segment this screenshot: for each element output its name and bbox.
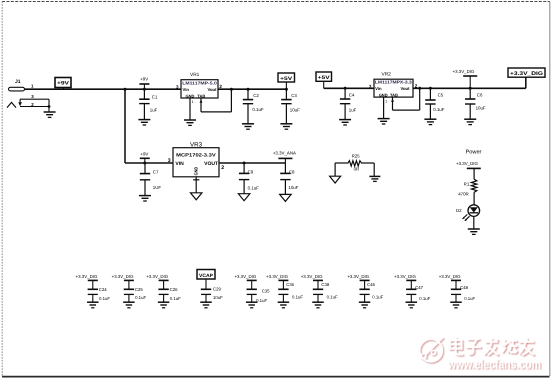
svg-text:1uF: 1uF [150,108,158,113]
svg-text:0.1uF: 0.1uF [170,296,181,301]
svg-text:+3.3V_DIG: +3.3V_DIG [439,274,461,279]
svg-text:C25: C25 [135,287,143,292]
svg-text:D2: D2 [456,208,462,213]
svg-text:VR2: VR2 [382,71,392,77]
svg-text:C9: C9 [248,169,254,174]
svg-text:VR3: VR3 [190,141,203,148]
svg-text:+3.3V_DIG: +3.3V_DIG [301,274,323,279]
svg-text:0.1uF: 0.1uF [292,295,303,300]
svg-text:C26: C26 [170,287,178,292]
svg-text:MCP1702-3.3V: MCP1702-3.3V [176,152,217,157]
svg-text:Vout: Vout [401,86,411,91]
svg-text:C5: C5 [438,92,444,97]
svg-text:2: 2 [219,84,222,89]
svg-text:+3.3V_DIG: +3.3V_DIG [453,69,475,74]
svg-text:C38: C38 [321,282,329,287]
svg-text:Power: Power [466,149,482,155]
svg-text:3: 3 [369,84,372,89]
svg-text:C36: C36 [286,282,294,287]
svg-text:0.1uF: 0.1uF [248,185,260,190]
svg-text:+3.3V_DIG: +3.3V_DIG [76,274,98,279]
svg-text:TAB: TAB [390,92,398,97]
svg-text:+3.3V_ANA: +3.3V_ANA [273,151,296,156]
svg-text:1: 1 [192,100,194,104]
svg-text:10uF: 10uF [288,185,298,190]
svg-text:+3.3V_DIG: +3.3V_DIG [234,274,256,279]
svg-text:C3: C3 [291,93,297,98]
svg-text:470R: 470R [458,191,469,196]
svg-text:GND: GND [186,94,195,99]
svg-text:+9V: +9V [57,81,70,87]
svg-text:J1: J1 [15,79,21,85]
svg-text:Vin: Vin [183,87,190,92]
svg-text:0.1uF: 0.1uF [419,296,430,301]
svg-text:C7: C7 [153,169,159,174]
svg-text:+3.3V_DIG: +3.3V_DIG [456,161,478,166]
svg-text:+3.3V_DIG: +3.3V_DIG [510,71,543,77]
svg-text:LM1117MP-5.0: LM1117MP-5.0 [182,80,217,85]
svg-text:GND: GND [194,167,199,176]
svg-text:C48: C48 [460,285,468,290]
svg-text:C47: C47 [415,285,423,290]
svg-text:3: 3 [176,84,179,89]
svg-text:C4: C4 [349,93,355,98]
svg-text:10uF: 10uF [213,295,223,300]
svg-text:0.1uF: 0.1uF [99,296,110,301]
svg-text:C35: C35 [262,288,270,293]
svg-text:GND: GND [379,92,388,97]
svg-text:+9V: +9V [140,77,148,82]
svg-text:VIN: VIN [175,161,184,167]
svg-text:C1: C1 [152,95,158,100]
svg-text:0.1uF: 0.1uF [252,107,264,112]
svg-text:2: 2 [221,165,224,171]
svg-text:0.1uF: 0.1uF [327,295,338,300]
svg-text:+3.3V_DIG: +3.3V_DIG [394,274,416,279]
svg-text:+3.3V_DIG: +3.3V_DIG [146,274,168,279]
svg-text:+5V: +5V [318,75,331,81]
svg-text:10uF: 10uF [290,108,300,113]
svg-text:C46: C46 [367,282,375,287]
svg-text:R25: R25 [352,153,361,158]
svg-text:0.1uF: 0.1uF [433,107,445,112]
svg-text:0R: 0R [354,166,360,171]
svg-text:+9V: +9V [140,152,148,157]
svg-text:+5V: +5V [280,76,293,82]
svg-text:3: 3 [168,158,171,164]
svg-text:Vin: Vin [375,86,382,91]
svg-text:C6: C6 [477,92,483,97]
svg-text:C24: C24 [99,287,107,292]
svg-text:C29: C29 [213,286,221,291]
svg-text:0.1uF: 0.1uF [464,296,475,301]
svg-text:1uF: 1uF [349,107,357,112]
svg-text:10uF: 10uF [476,105,486,110]
svg-text:1UF: 1UF [153,185,162,190]
svg-text:0.1uF: 0.1uF [256,298,267,303]
svg-text:0.1uF: 0.1uF [372,295,383,300]
svg-text:+3.3V_DIG: +3.3V_DIG [347,274,369,279]
svg-text:+3.3V_DIG: +3.3V_DIG [266,274,288,279]
svg-text:LM1117MPX-3.3: LM1117MPX-3.3 [375,80,413,85]
svg-text:1: 1 [385,100,387,104]
svg-text:R1: R1 [464,182,470,187]
svg-text:C2: C2 [253,93,259,98]
svg-text:VOUT: VOUT [204,161,218,167]
svg-text:VCAP: VCAP [199,273,214,279]
svg-text:TAB: TAB [197,94,205,99]
svg-text:+3.3V_DIG: +3.3V_DIG [112,274,134,279]
svg-text:VR1: VR1 [190,72,200,78]
svg-text:C8: C8 [289,169,295,174]
svg-text:Vout: Vout [208,87,218,92]
svg-text:0.1uF: 0.1uF [135,295,146,300]
svg-text:www.elecfans.com: www.elecfans.com [447,357,541,371]
